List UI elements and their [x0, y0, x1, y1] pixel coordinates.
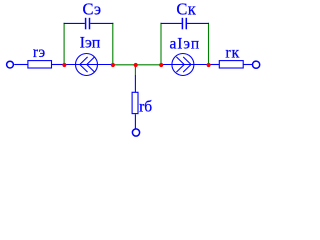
terminal (emitter, left) [7, 61, 14, 68]
svg-text:Iэп: Iэп [80, 34, 101, 51]
capacitor Cэ left plate [85, 18, 87, 30]
wire node 2 to node 4 (green bus) [113, 64, 161, 66]
terminal (collector, right) [253, 61, 260, 68]
wire right riser of Cк loop [208, 23, 210, 65]
wire node 5 to resistor rк [209, 64, 220, 66]
current source aIэп arrow chevron 1 [176, 57, 184, 72]
wire capacitor Cэ to top right [90, 22, 113, 24]
wire capacitor Cк to top right [187, 22, 209, 24]
wire rэ to node 1 [52, 64, 64, 66]
current source aIэп arrow chevron 2 [183, 57, 191, 72]
svg-text:Cк: Cк [176, 0, 196, 19]
resistor rэ [28, 61, 52, 68]
terminal (base, bottom) [132, 129, 139, 136]
node 3 (junction dot, base node) [134, 63, 138, 67]
wire left riser of Cк loop [160, 23, 162, 65]
resistor rб [132, 92, 138, 113]
current source aIэп (circle) [172, 54, 194, 76]
capacitor Cк left plate [181, 18, 183, 30]
capacitor Cэ right plate [89, 18, 91, 30]
svg-text:rэ: rэ [33, 44, 46, 61]
wire rк to right terminal [243, 64, 252, 66]
current source Iэп arrow chevron 2 [87, 57, 95, 72]
node 5 (junction dot) [207, 63, 211, 67]
wire top left to capacitor Cк [161, 22, 182, 24]
wire top left to capacitor Cэ [64, 22, 85, 24]
svg-text:Cэ: Cэ [83, 0, 102, 19]
svg-text:rк: rк [225, 44, 240, 61]
wire right riser of Cэ loop [112, 23, 114, 65]
wire node 1 to current source Iэп [64, 64, 113, 66]
wire left riser of Cэ loop [63, 23, 65, 65]
capacitor Cк right plate [185, 18, 187, 30]
current source Iэп (circle) [76, 54, 98, 76]
current source Iэп arrow chevron 1 [80, 57, 88, 72]
wire node 4 to current source aIэп [161, 64, 209, 66]
node 4 (junction dot) [159, 63, 163, 67]
node 1 (junction dot) [62, 63, 66, 67]
wire lead to resistor rб [134, 75, 136, 92]
resistor rк [219, 61, 243, 68]
node 2 (junction dot) [111, 63, 115, 67]
wire terminal to resistor rэ [14, 64, 27, 66]
wire rб to bottom terminal [134, 114, 136, 128]
wire node 3 down (green) [134, 65, 136, 75]
svg-text:aIэп: aIэп [170, 35, 201, 52]
svg-text:rб: rб [139, 98, 152, 115]
